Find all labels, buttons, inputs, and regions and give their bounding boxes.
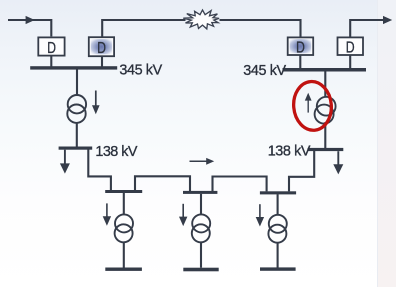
wire: feeder 1 tap to transformer T3 xyxy=(123,193,125,215)
transformer T1 lower winding xyxy=(67,105,85,123)
bus: feeder 3 xyxy=(260,191,296,194)
transformer T5 lower winding xyxy=(268,225,286,243)
arrow: flow down through T1 xyxy=(92,91,100,115)
transformer T3 upper winding xyxy=(115,214,133,232)
wire: D1 to left 345kV bus xyxy=(50,55,52,67)
arrow: load feeder 1 xyxy=(103,203,111,225)
wire: transformer T4 to load bus 2 xyxy=(200,242,202,268)
transformer T3 lower winding xyxy=(115,224,133,242)
transformer T2 lower winding xyxy=(315,105,334,124)
arrow: power inflow top-left xyxy=(26,16,35,24)
wire: feeder bus 2 to feeder bus 3 tie xyxy=(213,177,267,192)
transformer T4 lower winding xyxy=(192,224,210,242)
wire: transformer T5 to load bus 3 xyxy=(277,243,279,268)
arrow: power outflow top-right xyxy=(383,16,392,24)
arrow: load on left 138 kV bus xyxy=(60,150,70,174)
wire: D4 to right 345kV bus xyxy=(349,55,351,69)
wire: transformer T1 to left 138kV bus xyxy=(76,123,78,147)
relay D3 box (highlighted) xyxy=(288,37,314,57)
wire: right 345kV bus to transformer T2 xyxy=(324,71,326,97)
bus: left 138 kV xyxy=(59,147,93,150)
wire: D2 to left 345kV bus xyxy=(101,56,103,67)
arrow: load feeder 3 xyxy=(256,204,264,226)
bus: feeder 2 xyxy=(183,191,217,194)
bus: load bus 1 xyxy=(105,268,142,271)
wire: feeder 3 tap to transformer T5 xyxy=(277,194,279,215)
transformer T1 upper winding xyxy=(68,95,86,113)
arrow: load feeder 2 xyxy=(179,204,187,226)
fault starburst on tie line xyxy=(183,10,219,29)
bus: load bus 3 xyxy=(260,267,296,270)
transformer T4 upper winding xyxy=(192,214,210,232)
arrow: inter-system power flow (left to right) xyxy=(190,158,215,165)
wire: feeder 2 tap to transformer T4 xyxy=(200,194,202,215)
wire: feeder bus 1 to feeder bus 2 tie xyxy=(135,176,190,191)
bus: left 345 kV xyxy=(30,66,117,69)
wire: D3 to right 345kV bus xyxy=(299,55,301,69)
wire: transformer T3 to load bus 1 xyxy=(123,242,125,267)
svg-text:D: D xyxy=(47,40,56,58)
relay D1 box xyxy=(38,37,64,57)
wire: left 345kV bus to transformer T1 xyxy=(76,69,78,95)
svg-text:D: D xyxy=(346,39,355,57)
svg-text:345 kV: 345 kV xyxy=(243,63,286,79)
wire: D4 top to outgoing line xyxy=(350,20,387,37)
wire: right 138kV bus down to tie, over to feeder bus 3 xyxy=(289,151,314,192)
red highlight ellipse around reversed flow xyxy=(292,80,334,132)
transformer T2 upper winding xyxy=(317,97,336,116)
svg-text:138 kV: 138 kV xyxy=(268,144,311,160)
wire: transformer T2 to right 138kV bus xyxy=(324,122,326,148)
bus: feeder 1 xyxy=(105,190,142,193)
svg-text:345 kV: 345 kV xyxy=(119,62,162,78)
arrow: reverse flow up through T2 xyxy=(305,93,312,113)
transformer T5 upper winding xyxy=(269,215,287,233)
svg-text:138 kV: 138 kV xyxy=(95,144,137,160)
wire: fault tie line right half xyxy=(220,20,301,37)
relay D2 box (highlighted) xyxy=(89,37,114,57)
arrow: load on right 138 kV bus xyxy=(333,151,343,174)
wire: left 138kV bus down to tie, over to feeder bus 1 xyxy=(88,149,111,190)
svg-text:D: D xyxy=(296,39,305,57)
wire: D2 top to fault tie line xyxy=(102,20,185,37)
bus: load bus 2 xyxy=(183,268,218,272)
bus: right 345 kV xyxy=(283,68,367,72)
bus: right 138 kV xyxy=(308,148,344,151)
svg-text:D: D xyxy=(97,40,106,58)
wire: incoming tie line top-left xyxy=(8,20,51,36)
relay D4 box xyxy=(338,37,364,57)
